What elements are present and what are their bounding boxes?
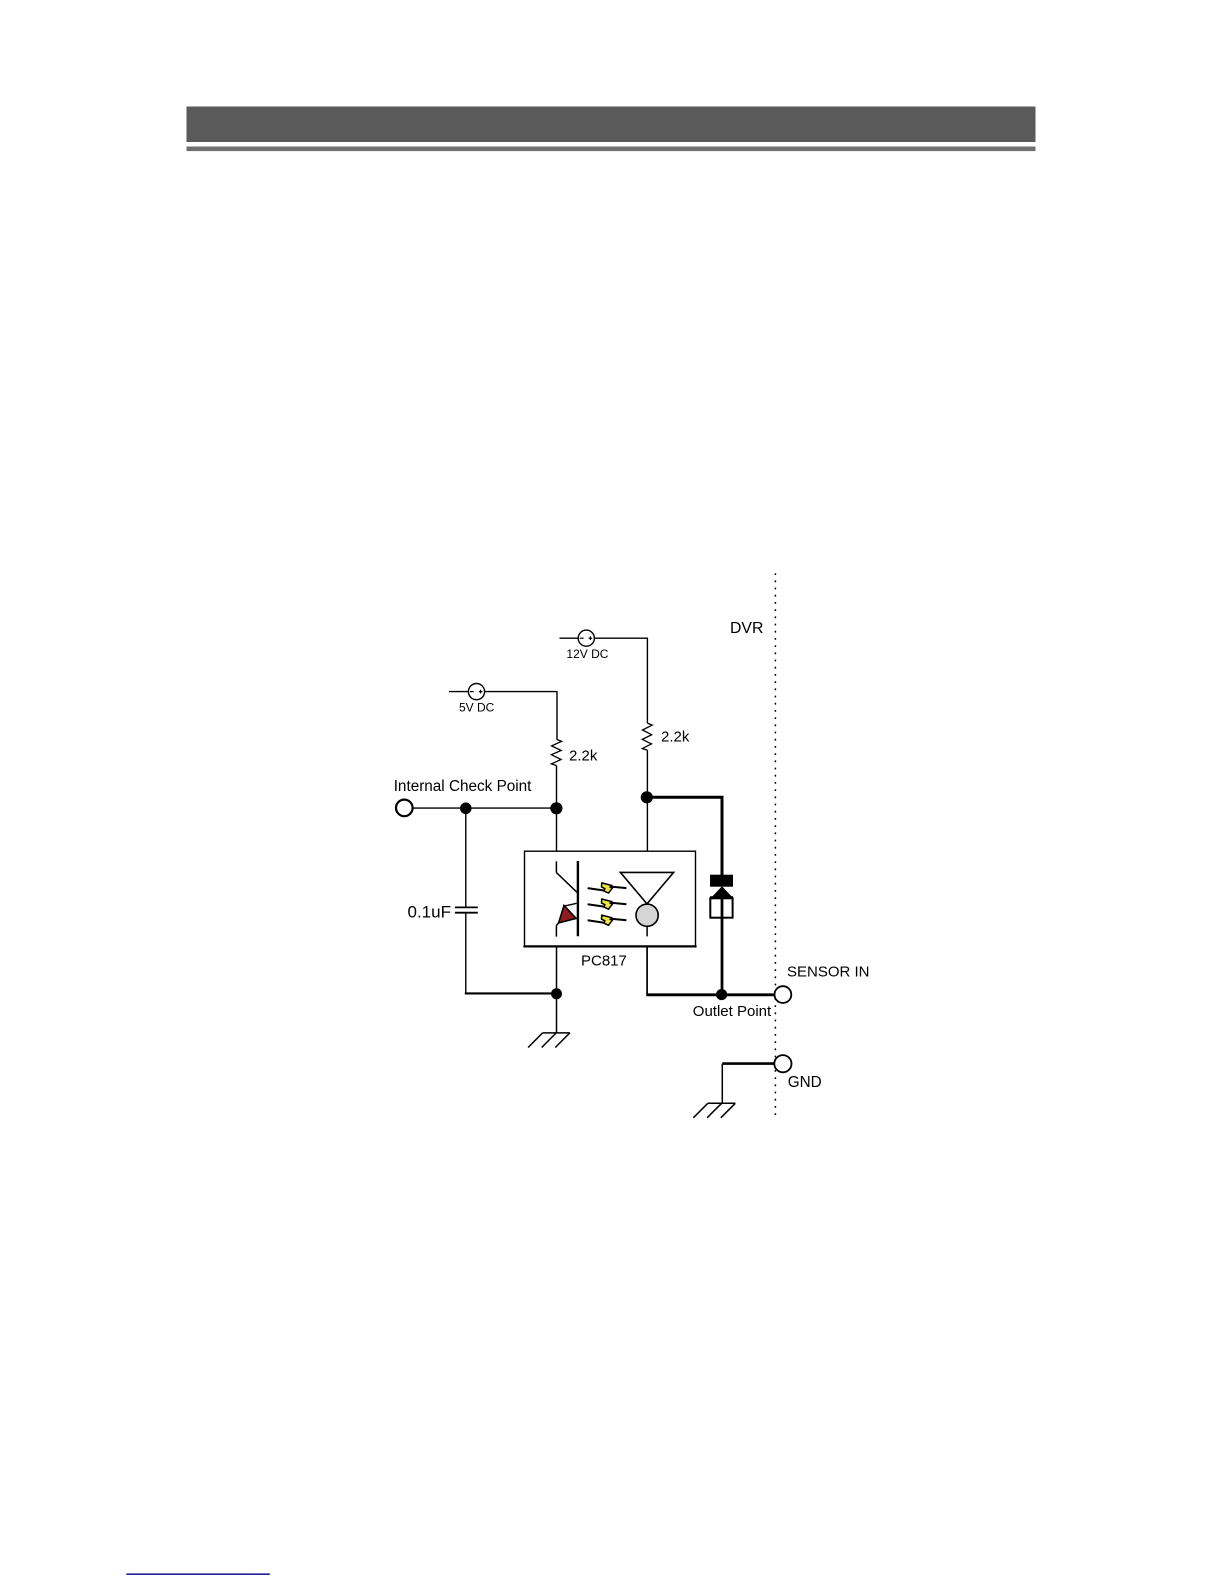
wire 5V to corner	[485, 692, 557, 740]
wire emitter to outlet line	[646, 946, 648, 994]
wire R2 to collector node	[646, 750, 648, 872]
light arrow 1	[588, 883, 627, 893]
header underline	[187, 147, 1036, 152]
svg-text:12V DC: 12V DC	[566, 647, 608, 661]
junction capacitor tap	[460, 803, 472, 815]
wire 12V to corner	[594, 638, 647, 723]
wire GND to ground	[722, 1062, 774, 1065]
node DVR boundary (dotted line)	[774, 573, 776, 1117]
header bar	[187, 107, 1036, 143]
source V2 12V DC	[578, 630, 594, 646]
svg-text:5V DC: 5V DC	[459, 701, 495, 715]
wire ground node to ground	[556, 994, 558, 1033]
svg-text:GND: GND	[788, 1074, 822, 1091]
svg-text:2.2k: 2.2k	[661, 729, 690, 746]
wire thick collector to diode	[648, 797, 722, 876]
transistor Q1 phototransistor inside PC817	[620, 872, 673, 936]
svg-text:PC817: PC817	[581, 953, 627, 970]
wire cap to cathode node	[465, 992, 557, 994]
svg-text:2.2k: 2.2k	[569, 747, 598, 764]
LED D2 inside PC817	[556, 861, 578, 937]
footer rule	[126, 1573, 269, 1575]
ground (right)	[693, 1103, 735, 1118]
light arrow 3	[588, 915, 627, 925]
junction collector node	[641, 791, 653, 803]
optocoupler U1 PC817 box	[523, 851, 696, 946]
junction anode node	[550, 802, 562, 814]
capacitor C1 0.1uF	[455, 907, 478, 912]
wire GND drop	[721, 1064, 723, 1104]
wire diode to outlet node	[721, 898, 724, 994]
resistor R1 2.2k	[551, 739, 561, 765]
svg-text:Outlet Point: Outlet Point	[693, 1003, 772, 1020]
svg-text:Internal Check Point: Internal Check Point	[394, 778, 532, 795]
svg-text:0.1uF: 0.1uF	[408, 903, 451, 922]
junction outlet point node	[716, 989, 727, 1000]
wire 5V left stub	[449, 691, 468, 693]
svg-text:SENSOR IN: SENSOR IN	[787, 963, 870, 980]
terminal GND	[774, 1055, 791, 1072]
light arrow 2	[588, 899, 627, 909]
wire R1 to anode node	[556, 766, 558, 862]
wire LED cathode to ground node	[556, 946, 558, 994]
ground (left)	[528, 1033, 570, 1048]
wire cap top	[465, 808, 467, 906]
resistor R2 2.2k	[642, 723, 652, 750]
terminal Internal Check Point	[396, 800, 413, 817]
terminal SENSOR IN	[775, 986, 792, 1003]
svg-text:DVR: DVR	[730, 620, 763, 637]
junction cathode/ground node	[551, 988, 562, 999]
diode D1 (protection diode)	[710, 875, 733, 918]
wire check point to anode node	[413, 807, 557, 809]
wire 12V left stub	[560, 637, 579, 639]
source V1 5V DC	[468, 684, 484, 700]
wire cap bottom	[465, 914, 467, 994]
